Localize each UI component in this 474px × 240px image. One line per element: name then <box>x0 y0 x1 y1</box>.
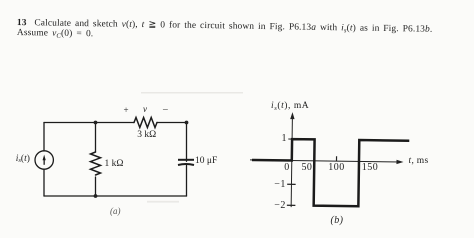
label - (polarity of v) <box>163 106 168 116</box>
node junction dot bottom (1k tap) <box>94 194 98 198</box>
faint scan smudge upper middle <box>141 92 243 94</box>
wire 1k branch top lead <box>95 123 97 153</box>
node junction dot top right <box>185 121 189 125</box>
label is(t) at current source <box>16 155 30 165</box>
problem statement line 1 <box>17 19 433 35</box>
tick 100 on x-axis <box>335 156 337 161</box>
graph (b) y-axis <box>291 116 292 207</box>
faint scan smudge lower middle <box>147 201 179 203</box>
graph label t, ms <box>409 157 429 167</box>
label v (voltage across 3k) <box>143 105 147 114</box>
graph (b) x-axis arrowhead <box>396 160 403 164</box>
graph label 150 <box>362 163 379 173</box>
graph (b) y-axis arrowhead <box>290 112 294 119</box>
label + (polarity of v) <box>124 106 129 115</box>
wire left vertical (source top lead to top-left corner) <box>43 123 45 152</box>
resistor 1 kOhm vertical zigzag <box>91 152 101 175</box>
wire left vertical (source bottom lead to bottom-left corner) <box>43 170 45 196</box>
graph label 100 <box>328 163 345 173</box>
wire top segment from left corner to 3k resistor <box>44 122 134 124</box>
tick -1 on y-axis <box>287 183 295 185</box>
label (b) <box>331 216 344 226</box>
graph label 1 <box>282 134 287 144</box>
wire right vertical top lead of capacitor <box>186 123 188 162</box>
problem statement line 2 <box>17 29 94 40</box>
current source arrow (upwards) <box>43 155 46 165</box>
label 1 kOhm <box>105 160 124 170</box>
graph (b) x-axis <box>250 160 400 162</box>
label 10 uF <box>195 157 217 167</box>
graph label -2 <box>274 201 286 211</box>
graph label 0 <box>284 163 289 173</box>
resistor 3 kOhm horizontal zigzag <box>134 118 157 128</box>
label (a) <box>110 207 121 216</box>
wire 1k branch bottom lead <box>95 177 97 196</box>
current source is(t) circle <box>35 151 53 169</box>
waveform is(t): 0 for t<0, +1 (0..50), -2 (50..150), +1 after 150 <box>251 139 409 207</box>
graph label 50 <box>302 163 313 173</box>
wire bottom rail <box>44 195 187 197</box>
tick -2 on y-axis <box>287 204 295 206</box>
tick +1 on y-axis <box>288 138 292 140</box>
wire top segment from 3k resistor to top-right corner <box>157 122 187 124</box>
graph label is(t), mA <box>271 102 309 112</box>
graph label -1 <box>274 180 286 190</box>
capacitor 10uF plates <box>178 160 194 165</box>
wire right vertical bottom lead of capacitor <box>186 166 188 197</box>
label 3 kOhm <box>137 131 156 141</box>
node junction dot top (1k tap) <box>94 121 98 125</box>
